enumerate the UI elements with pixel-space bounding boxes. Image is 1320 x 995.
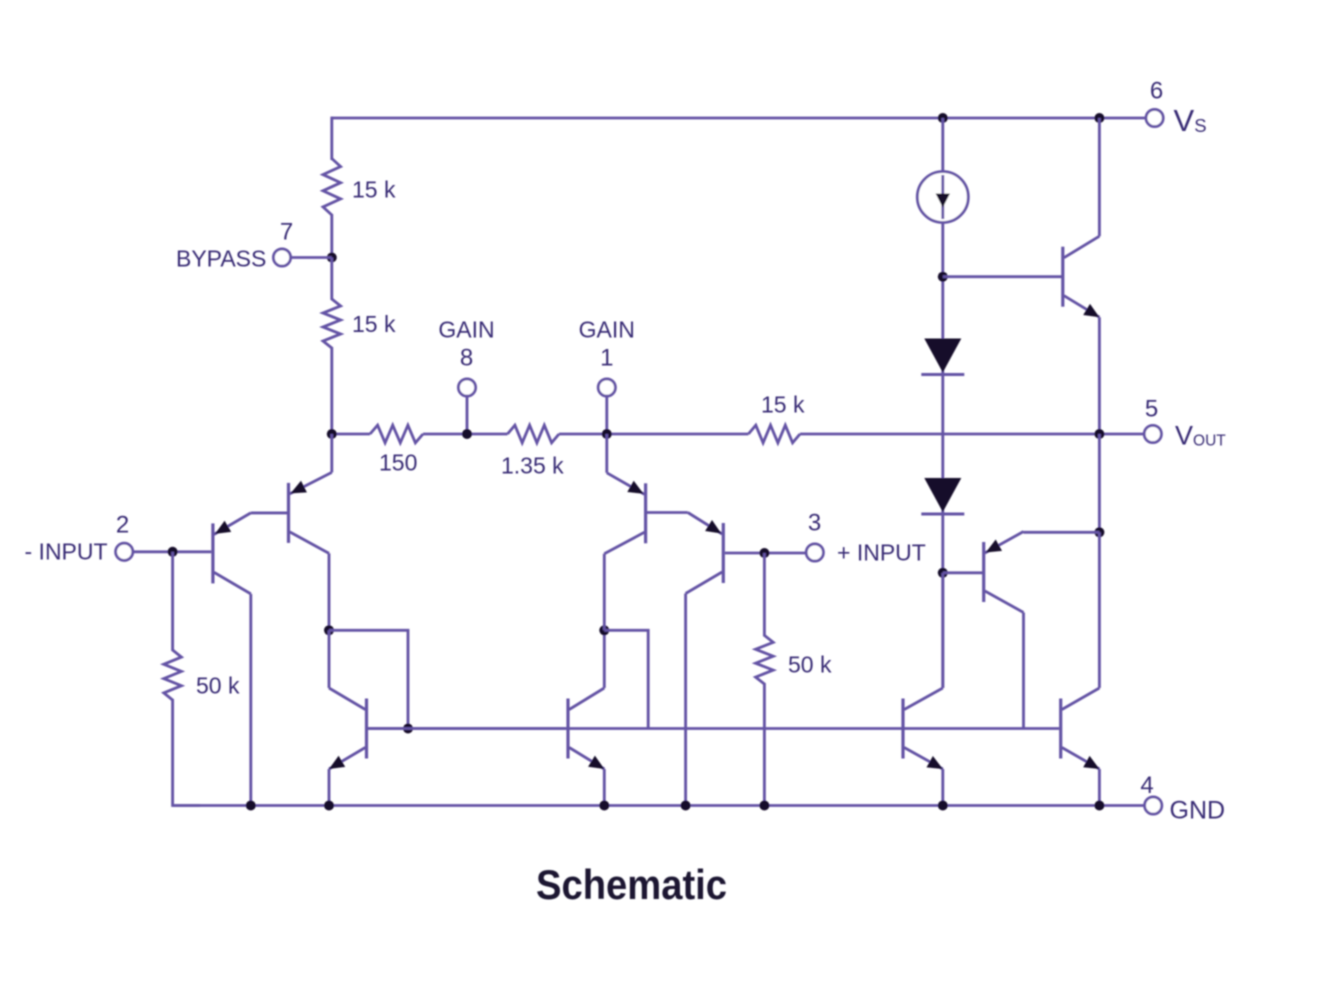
wire QP collector xyxy=(1022,613,1025,729)
svg-text:2: 2 xyxy=(116,512,129,539)
node bus / right vertical xyxy=(1094,429,1104,439)
wire mirror out link xyxy=(604,630,648,728)
transistor Q8b xyxy=(1061,688,1100,769)
wire -input xyxy=(132,550,211,553)
pin 1 GAIN terminal xyxy=(598,379,615,396)
transistor Q4 xyxy=(604,473,645,554)
wire Q4 emitter xyxy=(605,434,608,473)
transistor Q5a xyxy=(329,688,367,769)
label 15 k (R2) xyxy=(352,311,396,337)
transistor QP xyxy=(984,532,1024,613)
node gain1 xyxy=(602,429,612,439)
pin 2 -INPUT terminal xyxy=(116,543,133,560)
pin 7 BYPASS terminal xyxy=(273,249,290,266)
wire Q3 base xyxy=(725,552,807,555)
label 8 xyxy=(460,345,473,372)
wire Q8b collector xyxy=(1098,532,1101,688)
wire mirror diode link xyxy=(329,630,408,728)
svg-text:6: 6 xyxy=(1150,78,1163,105)
wire right vertical xyxy=(1098,434,1101,532)
svg-text:GAIN: GAIN xyxy=(438,317,494,343)
wire bypass xyxy=(290,256,332,259)
node top-left corner / wire xyxy=(330,117,333,160)
label GAIN (8) xyxy=(438,317,494,343)
wire output base rail xyxy=(368,727,1059,730)
label -INPUT xyxy=(25,539,108,565)
wire Q1 collector xyxy=(249,594,252,806)
wire gain1 xyxy=(605,396,608,434)
label 6 xyxy=(1150,78,1163,105)
svg-text:50 k: 50 k xyxy=(196,673,240,699)
transistor Q1 xyxy=(213,513,251,594)
label Schematic xyxy=(536,861,727,908)
transistor Q3 xyxy=(686,513,724,594)
node top rail / chain xyxy=(938,113,948,123)
label 15 k (R5) xyxy=(761,392,805,418)
svg-text:5: 5 xyxy=(1145,396,1158,423)
wire Q8b emitter xyxy=(1098,769,1101,806)
wire Q4 base to Q3 emitter xyxy=(647,511,688,514)
wire Q8a emitter xyxy=(941,769,944,806)
label GND xyxy=(1170,797,1226,825)
node gain8 xyxy=(462,429,472,439)
node gnd Q8b emitter xyxy=(1094,801,1104,811)
node gnd Q5b xyxy=(599,801,609,811)
label 1.35 k xyxy=(501,453,564,479)
wire 50k top xyxy=(171,552,174,651)
wire Q1 emitter to Q2 base xyxy=(251,511,287,514)
label 50 k (R7) xyxy=(788,652,832,678)
current source I1 xyxy=(917,172,968,223)
wire 50k-2 bottom xyxy=(763,683,766,806)
svg-text:BYPASS: BYPASS xyxy=(176,246,266,272)
node mirror right xyxy=(599,625,609,635)
pin 6 VS terminal xyxy=(1146,109,1163,126)
svg-text:+ INPUT: + INPUT xyxy=(837,540,926,566)
svg-text:1: 1 xyxy=(600,345,613,372)
wire Q3 collector xyxy=(684,594,687,806)
wire output bus xyxy=(332,433,1145,436)
svg-text:50 k: 50 k xyxy=(788,652,832,678)
label 50 k (R6) xyxy=(196,673,240,699)
node gnd Q8a emitter xyxy=(938,801,948,811)
label 150 xyxy=(379,450,417,476)
pin 8 GAIN terminal xyxy=(458,379,475,396)
label 15 k (R1) xyxy=(352,177,396,203)
svg-text:15 k: 15 k xyxy=(352,177,396,203)
wire Q5b emitter xyxy=(603,769,606,806)
wire Q5a emitter xyxy=(328,769,331,806)
wire xyxy=(330,347,333,434)
wire mirror base rail xyxy=(368,727,566,730)
resistor R2 15k xyxy=(323,299,341,348)
wire Q5b collector xyxy=(603,630,606,688)
wire gain8 xyxy=(466,396,469,434)
node -input junction xyxy=(168,547,178,557)
node bus-left xyxy=(327,429,337,439)
diode D2 xyxy=(921,478,964,514)
label 3 xyxy=(808,510,821,537)
wire bias chain xyxy=(941,118,944,688)
resistor R6 50k xyxy=(164,650,182,700)
wire 50k bottom xyxy=(173,699,200,806)
svg-text:15 k: 15 k xyxy=(352,311,396,337)
wire Q7 emitter xyxy=(1098,317,1101,434)
label VS xyxy=(1174,103,1207,138)
node gnd Q3 xyxy=(681,801,691,811)
svg-text:3: 3 xyxy=(808,510,821,537)
svg-text:GAIN: GAIN xyxy=(579,317,635,343)
svg-text:8: 8 xyxy=(460,345,473,372)
resistor R1 15k xyxy=(323,159,341,216)
svg-text:1.35 k: 1.35 k xyxy=(501,453,564,479)
wire QP base xyxy=(943,571,983,574)
transistor Q5b xyxy=(568,688,604,769)
svg-text:150: 150 xyxy=(379,450,417,476)
label GAIN (1) xyxy=(579,317,635,343)
label BYPASS xyxy=(176,246,266,272)
pin 3 +INPUT terminal xyxy=(806,544,823,561)
node chain / Q7 base xyxy=(938,272,948,282)
transistor Q2 xyxy=(289,472,332,553)
svg-text:4: 4 xyxy=(1140,772,1153,799)
wire Q7 base xyxy=(943,275,1062,278)
label 1 xyxy=(600,345,613,372)
wire Q7 collector xyxy=(1098,118,1101,236)
label 7 xyxy=(280,219,293,246)
transistor Q7 xyxy=(1063,236,1100,317)
label 2 xyxy=(116,512,129,539)
label 5 xyxy=(1145,396,1158,423)
wire 50k-2 top xyxy=(763,553,766,636)
node bypass junction xyxy=(327,253,337,263)
node gnd Q5a xyxy=(324,801,334,811)
resistor R5 15k xyxy=(748,425,800,443)
node +input junction xyxy=(759,548,769,558)
wire Q2 collector xyxy=(328,553,331,630)
label VOUT xyxy=(1175,421,1226,451)
svg-text:Schematic: Schematic xyxy=(536,861,727,908)
node mirror base xyxy=(403,724,413,734)
wire Q8a collector xyxy=(941,573,944,688)
wire xyxy=(330,214,333,259)
node gnd Q1 xyxy=(246,801,256,811)
resistor R4 1.35k xyxy=(508,425,560,443)
node chain / QP base xyxy=(938,568,948,578)
node top rail / Q7 collector xyxy=(1094,113,1104,123)
node gnd R7 xyxy=(759,801,769,811)
svg-text:GND: GND xyxy=(1170,797,1226,825)
svg-text:7: 7 xyxy=(280,219,293,246)
svg-text:- INPUT: - INPUT xyxy=(25,539,108,565)
pin 4 GND terminal xyxy=(1145,797,1162,814)
wire Q2 emitter xyxy=(330,434,333,472)
wire Q4 collector xyxy=(603,554,606,631)
node output node xyxy=(1094,527,1104,537)
diode D1 xyxy=(921,339,964,375)
resistor R3 150 xyxy=(370,425,423,443)
pin 5 VOUT terminal xyxy=(1144,425,1161,442)
resistor R7 50k xyxy=(756,635,774,684)
wire xyxy=(330,258,333,301)
label +INPUT xyxy=(837,540,926,566)
wire GND rail main xyxy=(173,804,1145,807)
node mirror left xyxy=(324,625,334,635)
wire QP emitter xyxy=(1024,531,1100,534)
label 4 xyxy=(1140,772,1153,799)
wire mirror left collector xyxy=(328,630,331,688)
wire VS top rail xyxy=(332,117,1147,120)
transistor Q8a xyxy=(903,688,943,769)
svg-text:15 k: 15 k xyxy=(761,392,805,418)
